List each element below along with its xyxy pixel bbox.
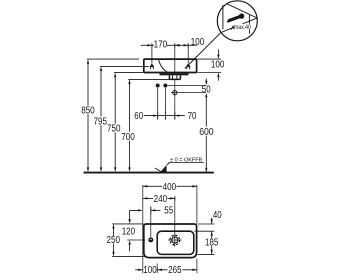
svg-text:170: 170 [154,40,168,51]
dim 55 [150,207,152,215]
right fixing anchor [186,44,191,69]
supply dot left [156,84,160,88]
detail interior lines [222,5,224,30]
dim 100 right apron [198,59,222,72]
dim 400 [143,185,197,187]
floor line [84,172,214,174]
dim 250 refs [112,224,146,257]
drain centerline [174,44,176,72]
svg-text:250: 250 [107,235,121,246]
bottom dims extensions [157,259,197,274]
left fixing anchor [150,44,155,69]
dim 265 [157,269,197,271]
dots reference line to 50 dim [168,85,207,87]
svg-text:185: 185 [205,238,219,249]
detail screw [228,13,244,21]
detail label max.40 [234,24,251,30]
svg-text:100: 100 [211,60,225,71]
svg-text:750: 750 [107,124,121,135]
svg-text:100: 100 [143,265,157,276]
drain connection symbol [171,89,179,97]
dim 250 [113,227,115,254]
svg-text:60: 60 [134,111,143,122]
dim 600 line [205,97,207,172]
drain pipe walls [173,75,177,79]
svg-text:240: 240 [154,194,168,205]
svg-text:600: 600 [199,127,214,138]
leader to detail [185,33,221,69]
supply dot right [163,84,167,88]
svg-text:max.40: max.40 [234,24,251,31]
dim 100 bottom [135,269,142,271]
dim 750 [114,72,143,74]
detail circle [217,1,257,41]
svg-text:100: 100 [191,37,205,48]
left extension line column [142,185,144,273]
drain trap box [169,75,180,79]
bowl interior curve [159,60,167,72]
dim 170 [141,44,175,46]
plan outer rect [144,224,197,258]
dim 185 [198,253,215,255]
svg-text:850: 850 [81,106,95,117]
svg-text:700: 700 [121,132,135,143]
plan drain outlet [168,233,182,247]
dim 40 refs [195,224,215,231]
detail caret arrow [231,26,234,30]
dim 795 [100,65,149,67]
svg-text:400: 400 [163,182,177,193]
dim 100 top [175,44,197,46]
basin underside slab [160,73,189,75]
right extension 400 [196,185,198,224]
svg-text:795: 795 [94,116,108,127]
floor level symbol [155,168,162,172]
drain symbol ref line to 50 dim [179,92,207,94]
dim 55 bent arrow [130,210,139,222]
dim 700 [128,78,174,80]
washbasin front view outline [144,59,197,72]
dim 50 [205,79,207,81]
svg-text:120: 120 [122,227,136,238]
svg-text:265: 265 [168,265,182,276]
dot centerlines [158,88,166,120]
dim 240 [143,197,175,199]
plan tap hole [148,237,153,242]
dim 40 [211,218,213,224]
dim 850 [87,58,139,60]
plan tap centerline [150,207,152,238]
svg-text:40: 40 [213,210,222,221]
svg-text:70: 70 [188,111,197,122]
dim 60 / 70 row [144,115,185,117]
svg-text:55: 55 [164,206,173,217]
plan bowl rect [157,231,194,254]
plan drain centerline [174,196,176,233]
